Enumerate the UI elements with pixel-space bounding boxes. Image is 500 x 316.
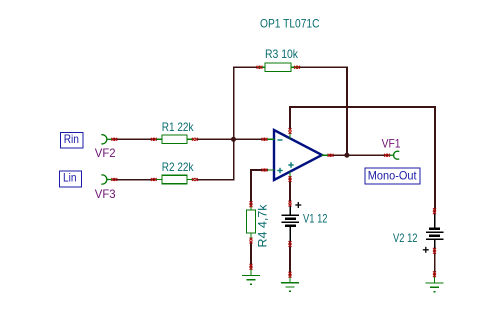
Mono-Out node label box — [365, 168, 420, 184]
pin marks VF1 — [384, 154, 390, 157]
node A junction dot — [231, 137, 236, 142]
op-amp + input symbol — [277, 168, 282, 173]
ground below V1 — [281, 276, 299, 291]
wire R1 to op-amp inverting input (through node A) — [196, 138, 269, 140]
svg-text:V1 12: V1 12 — [303, 211, 328, 225]
wire VF3 to R2 — [112, 179, 156, 181]
svg-text:R4 4,7k: R4 4,7k — [256, 203, 270, 247]
pin marks V1 — [289, 201, 292, 207]
op-amp pin stubs (green) — [267, 133, 328, 179]
pin marks op-amp top supply — [289, 128, 292, 134]
Rin node label box — [61, 132, 84, 148]
wire V1 to ground — [289, 241, 291, 276]
op-amp + supply symbol — [288, 162, 293, 167]
resistor R4 — [247, 205, 256, 241]
pin marks op-amp bottom supply — [289, 176, 292, 182]
pin marks ground V2 — [433, 271, 436, 277]
resistor R3 — [258, 63, 298, 72]
pin marks op-amp output — [328, 154, 334, 157]
wire V2 to ground — [434, 249, 436, 276]
pin marks ground R4 — [250, 264, 253, 270]
wire op-amp output to VF1 — [327, 154, 389, 156]
ground below V2 — [426, 276, 444, 292]
svg-text:VF1: VF1 — [382, 136, 401, 150]
resistor R2 — [155, 175, 195, 184]
terminal VF3 — [101, 175, 112, 184]
svg-text:R1 22k: R1 22k — [162, 120, 195, 134]
terminal VF1 — [389, 151, 400, 159]
Lin node label box — [60, 171, 82, 187]
pin marks VF2 — [111, 138, 117, 141]
pin marks R2 — [151, 178, 157, 181]
V2 plus sign — [423, 247, 429, 253]
svg-text:Rin: Rin — [64, 132, 79, 146]
pin marks VF3 — [111, 178, 117, 181]
svg-text:V2 12: V2 12 — [393, 231, 418, 245]
wire VF2 to R1 — [112, 138, 156, 140]
wire op-amp bottom supply pin to V1 — [289, 178, 291, 204]
svg-text:R3 10k: R3 10k — [265, 47, 299, 61]
battery V1 — [282, 205, 300, 242]
battery V2 — [426, 213, 444, 250]
wire op-amp top supply pin to V2 rail — [290, 107, 435, 213]
terminal VF2 — [101, 135, 112, 144]
ground below R4 — [242, 268, 260, 284]
svg-text:VF3: VF3 — [95, 187, 116, 201]
pin marks V2 — [433, 208, 436, 214]
svg-text:Mono-Out: Mono-Out — [368, 169, 417, 183]
pin marks R3 — [257, 66, 263, 69]
pin marks R1 — [151, 138, 157, 141]
resistor R1 — [155, 135, 195, 144]
op-amp - input symbol — [278, 139, 283, 141]
pin marks R4 — [250, 201, 253, 207]
svg-text:Lin: Lin — [63, 171, 77, 185]
pin marks ground V1 — [289, 272, 292, 278]
wire R2 up to node A and feedback riser to R3 — [196, 67, 260, 180]
wire R4 to ground — [250, 242, 252, 269]
svg-text:OP1 TL071C: OP1 TL071C — [260, 16, 320, 30]
wire op-amp non-inverting input down to R4 — [251, 170, 268, 206]
op-amp OP1 — [267, 130, 328, 180]
svg-text:VF2: VF2 — [95, 146, 116, 160]
V1 plus sign — [295, 202, 301, 208]
output node junction dot — [344, 153, 349, 158]
pin marks op-amp inverting input — [262, 138, 268, 141]
wire R3 right to output node — [297, 67, 348, 155]
svg-text:R2 22k: R2 22k — [162, 160, 195, 174]
pin marks op-amp non-inverting input — [262, 169, 268, 172]
